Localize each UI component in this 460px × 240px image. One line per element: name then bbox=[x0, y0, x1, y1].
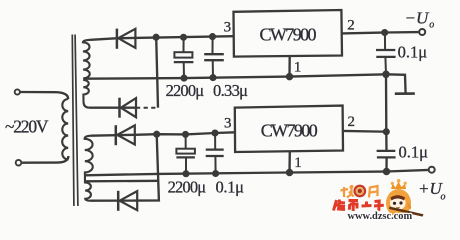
capacitor C4 2200u (electrolytic, hollow top plate) bbox=[176, 149, 195, 158]
label -Uo bbox=[405, 8, 435, 30]
svg-text:−U: −U bbox=[405, 8, 430, 27]
ground bbox=[395, 92, 415, 95]
watermark orange char 1 bbox=[341, 185, 354, 198]
wire primary bottom lead bbox=[22, 156, 69, 163]
transformer secondary winding W3 lower (to VD3/VD4) bbox=[85, 136, 93, 201]
node A bbox=[153, 34, 159, 40]
svg-text:o: o bbox=[429, 19, 434, 30]
wire U1 pin2 to -Uo terminal bbox=[342, 32, 419, 33]
svg-text:0.1μ: 0.1μ bbox=[216, 177, 245, 196]
capacitor C1 2200u lead top bbox=[183, 37, 186, 78]
node H bbox=[384, 169, 390, 175]
svg-text:0.1μ: 0.1μ bbox=[399, 143, 429, 162]
regulator U2 CW7900 box bbox=[235, 106, 343, 152]
svg-text:CW7900: CW7900 bbox=[260, 24, 317, 44]
node C4 bbox=[213, 171, 219, 177]
AC input terminal bottom bbox=[16, 160, 22, 166]
transformer T1 primary winding bbox=[62, 99, 68, 160]
wire primary top lead bbox=[20, 92, 68, 99]
wire secondary top lead to VD1 bbox=[91, 38, 116, 40]
wire vertical node A2 to VD4 anode bbox=[137, 134, 159, 200]
capacitor C4 2200u leads (lower) bbox=[185, 134, 187, 173]
wire center-tap rail (upper) from winding to ground node bbox=[83, 74, 386, 78]
ground stub wire bbox=[386, 74, 406, 93]
svg-text:3: 3 bbox=[224, 20, 232, 36]
wire VD1 anode to node A and top rail to U1 pin3 bbox=[116, 36, 234, 38]
svg-text:1: 1 bbox=[294, 59, 302, 75]
node C2 bbox=[210, 75, 216, 81]
svg-text:2200μ: 2200μ bbox=[166, 81, 205, 100]
capacitor C5 0.1u leads (lower mid) bbox=[214, 133, 217, 174]
AC input terminal top bbox=[15, 89, 20, 94]
wire U2 pin1 bbox=[288, 151, 291, 172]
wire dashed VD2 anode link bbox=[136, 107, 158, 109]
transformer secondary winding W2 upper (to VD1/VD2) bbox=[83, 40, 91, 108]
node C bbox=[210, 34, 216, 40]
svg-text:CW7900: CW7900 bbox=[261, 120, 318, 140]
watermark red text wei-ku-yi-xia bbox=[334, 200, 384, 212]
svg-text:~220V: ~220V bbox=[5, 117, 49, 137]
node A2 bbox=[154, 131, 160, 137]
wire vertical node A to VD2 anode level bbox=[156, 37, 158, 108]
svg-text:0.1μ: 0.1μ bbox=[398, 43, 428, 62]
node D bbox=[382, 30, 388, 36]
diode VD2 bbox=[120, 98, 137, 118]
capacitor C6 0.1u (bottom right) bbox=[377, 151, 396, 158]
watermark red circle emblem bbox=[353, 185, 366, 198]
capacitor C1 2200u (electrolytic, hollow top plate) bbox=[174, 52, 194, 62]
svg-text:2: 2 bbox=[347, 18, 355, 34]
wire output rail (lower) winding tap to +Uo bbox=[85, 170, 429, 175]
node B bbox=[181, 35, 187, 41]
diode VD4 bbox=[118, 191, 137, 211]
wire VD2 cathode to winding bbox=[90, 107, 137, 109]
svg-text:2200μ: 2200μ bbox=[168, 177, 207, 196]
capacitor C5 0.1u bbox=[206, 150, 224, 156]
capacitor C3 0.1u leads (top right) bbox=[385, 33, 386, 75]
wire U2 pin2 to node G bbox=[343, 130, 387, 133]
wire VD4 cathode to winding bbox=[91, 199, 138, 201]
node F2 pin1 junction U2 bbox=[287, 170, 293, 176]
node E ground junction bbox=[383, 71, 389, 77]
output terminal -Uo bbox=[419, 29, 425, 35]
wire U1 pin1 bbox=[288, 56, 291, 76]
diode VD3 bbox=[116, 125, 135, 145]
transformer T1 core bbox=[72, 35, 78, 207]
svg-text:0.33μ: 0.33μ bbox=[213, 81, 248, 100]
svg-text:1: 1 bbox=[294, 155, 302, 171]
output terminal +Uo bbox=[429, 167, 435, 173]
wire vertical ground node to U2 pin2 node and C6 bbox=[385, 74, 388, 171]
wire VD3 anode to node A2 and rail to U2 pin3 bbox=[135, 132, 235, 135]
capacitor C2 0.33u bbox=[204, 54, 224, 60]
capacitor C2 0.33u leads bbox=[212, 37, 215, 78]
capacitor C3 0.1u bbox=[376, 50, 396, 57]
diode VD1 bbox=[117, 29, 135, 49]
watermark dzsc.com bbox=[334, 179, 424, 222]
svg-text:o: o bbox=[441, 191, 446, 202]
svg-text:www.dzsc.com: www.dzsc.com bbox=[348, 211, 413, 220]
node F pin1 junction U1 bbox=[287, 74, 293, 80]
wire W3 line2 tap to vertical bbox=[85, 180, 158, 183]
node C3 bbox=[212, 130, 218, 136]
node B3 bbox=[183, 132, 189, 138]
watermark orange char 2 bbox=[369, 186, 378, 198]
node G U2 pin2 junction bbox=[384, 129, 390, 135]
wire VD3 cathode lead from winding bbox=[91, 134, 135, 137]
node B4 bbox=[183, 171, 189, 177]
regulator U1 CW7900 box bbox=[234, 10, 343, 57]
svg-text:3: 3 bbox=[224, 115, 232, 131]
label +Uo bbox=[418, 179, 446, 202]
svg-text:2: 2 bbox=[347, 114, 355, 130]
watermark mascot bbox=[386, 179, 424, 217]
node B2 bbox=[181, 75, 187, 81]
